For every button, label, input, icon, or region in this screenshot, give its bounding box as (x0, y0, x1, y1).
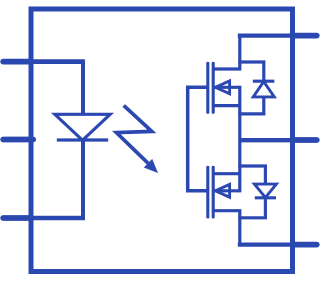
wire: anode lead into box (29, 59, 84, 64)
diode D2 triangle (253, 82, 274, 97)
wire: common gate bracket (188, 87, 208, 191)
transistor Q2 gate line (206, 167, 209, 217)
wire: top rail to pin 6 (238, 33, 295, 37)
wire: Q2 body stub (213, 189, 240, 192)
wire: down to LED anode (81, 60, 85, 115)
wire: Q1 source stub (213, 104, 240, 107)
wire: Q1 body stub (213, 86, 240, 89)
wire: Q2 drain stub down to bottom rail (213, 211, 240, 245)
pin 5 lead (right middle, common source) (294, 137, 317, 143)
diode D3 triangle (254, 184, 276, 197)
wire: common source vertical node (238, 86, 241, 193)
pin 2 lead (left middle) (3, 137, 33, 143)
diode D3 top wire (anode to source node) (238, 166, 265, 184)
LED D1 triangle (55, 114, 110, 140)
wire: LED cathode down (81, 140, 85, 218)
wire: bottom rail to pin 4 (238, 242, 295, 246)
diode D2 cathode bar (253, 80, 275, 83)
diode D2 bottom wire (anode to source node) (238, 97, 264, 114)
diode D2 top wire (cathode to drain node) (238, 62, 264, 81)
transistor Q2 body arrow (215, 184, 229, 197)
transistor Q1 body arrow (215, 81, 229, 94)
transistor Q2 channel line (212, 167, 215, 217)
pin 4 lead (right bottom, drain 2) (294, 242, 317, 248)
pin 3 lead (left bottom, LED cathode) (3, 215, 31, 221)
pin 1 lead (left top, LED anode) (3, 59, 31, 65)
wire: Q2 source stub (213, 172, 240, 175)
pin 6 lead (right top, drain 1) (294, 33, 317, 39)
wire: Q1 drain stub up to top rail (213, 36, 240, 69)
wire: cathode to pin 3 (29, 216, 85, 220)
diode D3 bottom wire (cathode to drain node) (238, 198, 265, 218)
transistor Q1 gate line (206, 63, 209, 112)
diode D3 cathode bar (255, 196, 276, 199)
light emission arrowhead (144, 159, 158, 173)
transistor Q1 channel line (212, 63, 215, 112)
light emission zigzag arrow shaft (116, 106, 151, 164)
LED D1 cathode bar (57, 138, 108, 141)
package outline box (31, 9, 293, 272)
wire: middle rail to pin 5 (240, 138, 295, 142)
